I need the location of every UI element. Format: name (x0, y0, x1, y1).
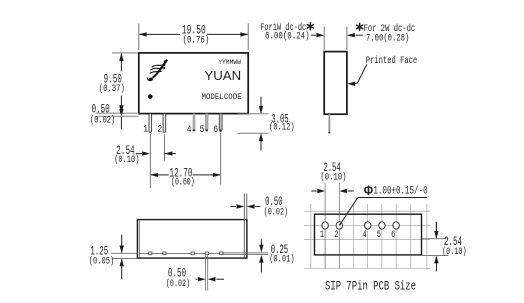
svg-text:5: 5 (200, 125, 205, 136)
svg-text:(0.10): (0.10) (114, 154, 139, 166)
svg-text:(0.76): (0.76) (183, 35, 210, 47)
svg-text:SIP 7Pin PCB Size: SIP 7Pin PCB Size (325, 278, 416, 293)
svg-text:(0.60): (0.60) (171, 176, 195, 188)
svg-text:Φ: Φ (364, 183, 373, 198)
svg-text:2: 2 (334, 230, 338, 241)
svg-text:6.00(0.24): 6.00(0.24) (265, 31, 310, 43)
svg-text:6: 6 (391, 230, 395, 241)
svg-text:(0.01): (0.01) (269, 254, 294, 266)
svg-text:Printed Face: Printed Face (366, 55, 417, 67)
svg-text:7.00(0.28): 7.00(0.28) (366, 33, 409, 45)
svg-text:(0.02): (0.02) (264, 206, 289, 218)
svg-text:1.00+0.15/-0: 1.00+0.15/-0 (373, 186, 427, 198)
svg-text:4: 4 (187, 125, 192, 136)
svg-text:4: 4 (363, 230, 367, 241)
svg-text:(0.05): (0.05) (89, 256, 114, 268)
svg-text:(0.12): (0.12) (269, 121, 295, 133)
svg-text:5: 5 (377, 230, 381, 241)
svg-text:(0.10): (0.10) (442, 246, 467, 258)
svg-text:2: 2 (157, 124, 162, 135)
svg-text:(0.37): (0.37) (99, 83, 125, 95)
svg-text:YYMMWW: YYMMWW (218, 59, 242, 67)
svg-text:(0.10): (0.10) (320, 172, 346, 184)
svg-text:YUAN: YUAN (204, 69, 241, 83)
svg-text:MODELCODE: MODELCODE (202, 93, 242, 102)
svg-text:(0.02): (0.02) (90, 114, 115, 126)
svg-text:6: 6 (213, 125, 218, 136)
svg-text:1: 1 (320, 230, 324, 241)
svg-text:1: 1 (143, 124, 148, 135)
svg-text:(0.02): (0.02) (166, 278, 190, 290)
